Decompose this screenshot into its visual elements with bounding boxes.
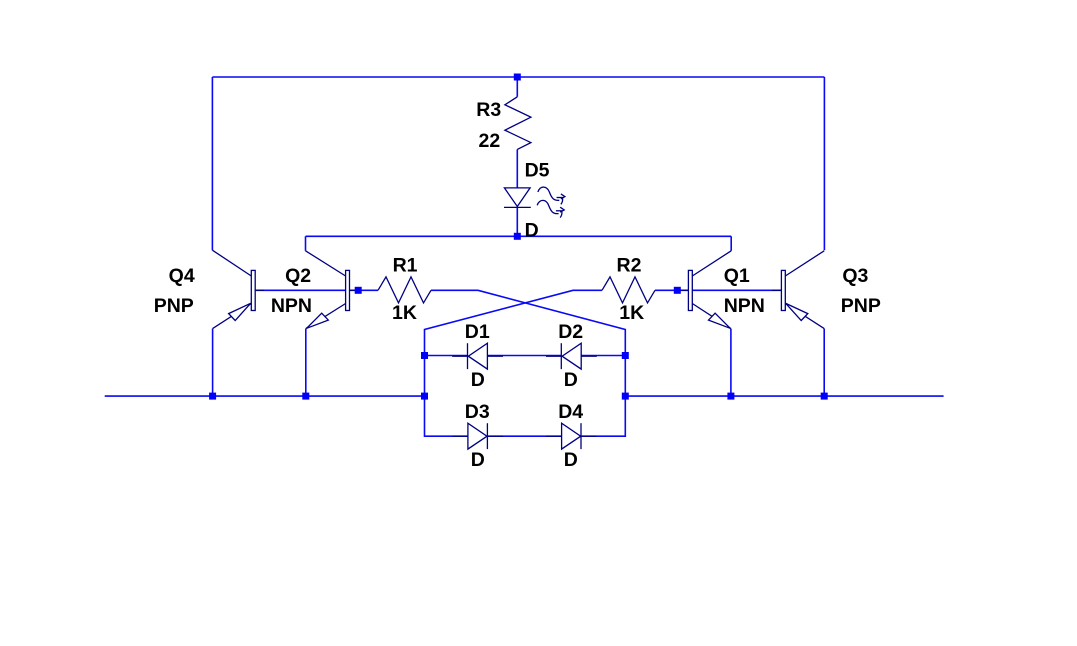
svg-text:D: D bbox=[471, 369, 485, 391]
svg-text:Q2: Q2 bbox=[285, 265, 311, 287]
svg-text:R2: R2 bbox=[617, 254, 642, 276]
svg-text:D3: D3 bbox=[465, 401, 490, 423]
svg-text:PNP: PNP bbox=[841, 295, 881, 317]
svg-text:1K: 1K bbox=[619, 302, 644, 324]
svg-text:D: D bbox=[564, 369, 578, 391]
svg-text:D: D bbox=[471, 449, 485, 471]
svg-text:22: 22 bbox=[478, 130, 500, 152]
svg-text:NPN: NPN bbox=[724, 295, 765, 317]
svg-text:D: D bbox=[564, 449, 578, 471]
svg-text:D5: D5 bbox=[525, 160, 550, 182]
svg-text:R1: R1 bbox=[393, 254, 418, 276]
svg-text:Q1: Q1 bbox=[724, 265, 750, 287]
svg-text:PNP: PNP bbox=[154, 295, 194, 317]
svg-text:D2: D2 bbox=[558, 321, 583, 343]
svg-text:D: D bbox=[525, 220, 539, 242]
svg-text:NPN: NPN bbox=[271, 295, 312, 317]
svg-text:Q3: Q3 bbox=[842, 265, 868, 287]
svg-text:D4: D4 bbox=[558, 401, 583, 423]
svg-text:Q4: Q4 bbox=[169, 265, 195, 287]
svg-text:D1: D1 bbox=[465, 321, 490, 343]
svg-text:1K: 1K bbox=[392, 302, 417, 324]
svg-text:R3: R3 bbox=[476, 99, 501, 121]
